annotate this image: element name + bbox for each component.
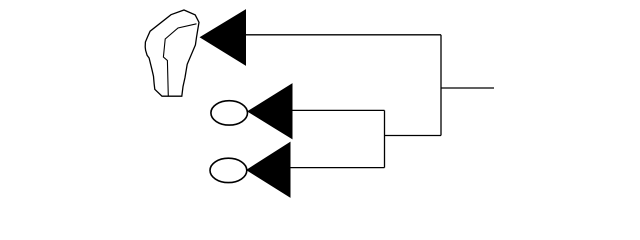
load region blob inner line	[163, 24, 196, 96]
load region blob outline	[145, 10, 199, 96]
inverter U2 bubble	[211, 101, 248, 125]
wire U3 input	[290, 167, 385, 169]
inverter U2 triangle	[248, 84, 292, 139]
wire U2 input	[292, 109, 385, 111]
wire vertical branch	[384, 110, 386, 167]
wire U1 input (y=35)	[246, 34, 442, 36]
inverter U3 triangle	[247, 143, 290, 198]
inverter U3 bubble	[210, 158, 247, 182]
buffer U1 triangle (top driver)	[201, 10, 246, 65]
wire input stub from right	[441, 87, 494, 89]
wire vertical trunk	[440, 35, 442, 136]
wire middle branch	[385, 135, 442, 137]
